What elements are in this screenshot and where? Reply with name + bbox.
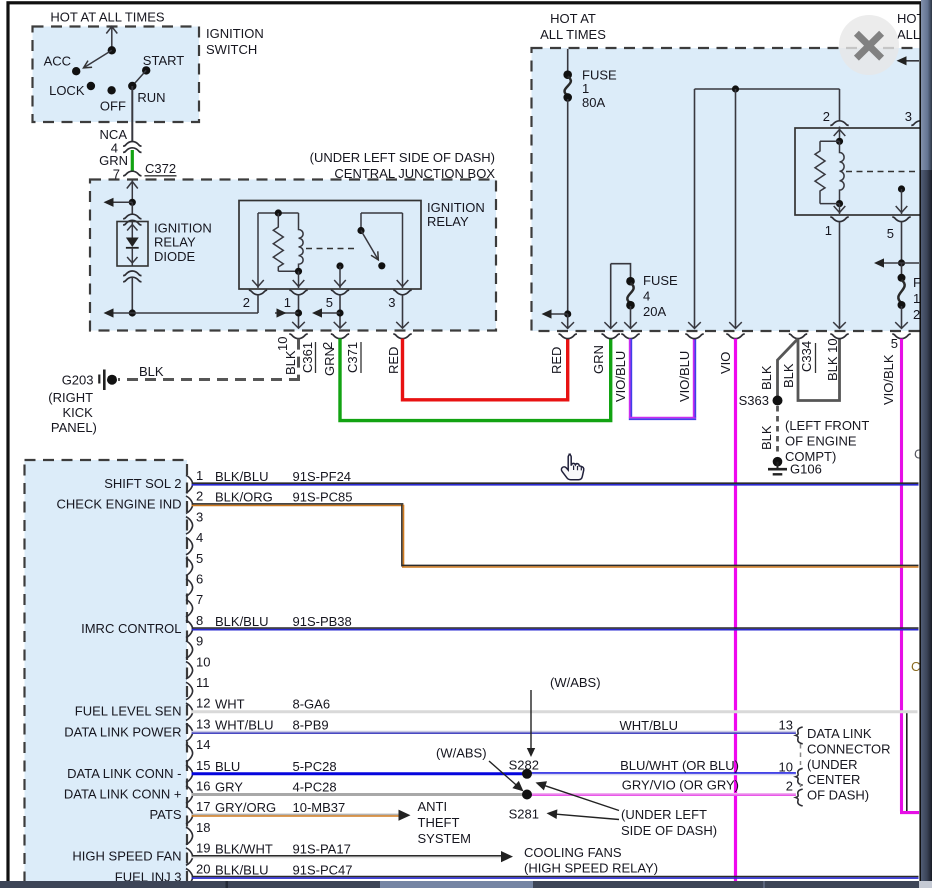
svg-text:IGNITION: IGNITION — [427, 200, 485, 215]
wire VIO vertical (magenta) — [734, 339, 737, 881]
svg-text:HIGH SPEED FAN: HIGH SPEED FAN — [72, 849, 181, 864]
svg-text:5: 5 — [196, 551, 203, 566]
svg-text:10: 10 — [275, 337, 290, 351]
svg-text:91S-PA17: 91S-PA17 — [293, 842, 351, 857]
wire 20 BLK/BLU 91S-PC47 — [192, 862, 919, 878]
svg-text:18: 18 — [196, 820, 210, 835]
relay pin 3 to CJB edge — [388, 290, 411, 328]
svg-text:1: 1 — [582, 81, 589, 96]
switch position dot OFF — [100, 86, 126, 113]
arrow stub top right — [897, 56, 920, 65]
svg-text:(W/ABS): (W/ABS) — [550, 675, 601, 690]
BLK pin cup (to S363 and C334) — [759, 334, 807, 390]
svg-text:RED: RED — [549, 347, 564, 374]
wire 15 BLU/WHT (OR BLU) to DLC pin 10 — [527, 772, 796, 774]
svg-text:10: 10 — [196, 654, 210, 669]
wire 16 GRY 4-PC28 — [192, 780, 527, 795]
svg-text:FUSE: FUSE — [643, 273, 678, 288]
svg-text:S281: S281 — [509, 807, 539, 822]
ignition relay diode D1 — [117, 221, 212, 267]
annotation UNDER LEFT SIDE OF DASH with arrows — [536, 781, 718, 838]
svg-text:OFF: OFF — [100, 99, 126, 114]
svg-text:1: 1 — [913, 291, 920, 306]
wire 1 BLK/BLU 91S-PF24 — [192, 469, 919, 485]
svg-text:80A: 80A — [582, 95, 605, 110]
svg-text:GRN: GRN — [322, 347, 337, 376]
VIO exit cup — [718, 334, 745, 374]
wire GRN pin 7 (green) — [99, 150, 132, 182]
wire BLK dashed to G203 — [118, 339, 300, 380]
svg-text:COMPT): COMPT) — [785, 449, 836, 464]
svg-text:14: 14 — [196, 737, 210, 752]
svg-text:17: 17 — [196, 799, 210, 814]
svg-text:ACC: ACC — [44, 54, 71, 69]
svg-text:KICK: KICK — [63, 405, 94, 420]
relay resistor (coil suppressor) — [273, 213, 283, 271]
svg-text:BLK: BLK — [759, 425, 774, 450]
svg-text:13: 13 — [779, 718, 793, 733]
ignition switch feed arrow to HOT — [106, 27, 117, 51]
svg-text:WHT/BLU: WHT/BLU — [215, 717, 274, 732]
svg-text:G203: G203 — [62, 372, 94, 387]
connector break NCA pin 4 — [100, 127, 142, 156]
svg-text:8-GA6: 8-GA6 — [293, 697, 331, 712]
ignition switch box (HOT AT ALL TIMES) — [33, 10, 264, 123]
wire 15 BLU 5-PC28 — [192, 759, 527, 774]
junction dot and stub arrow left — [104, 198, 136, 207]
svg-text:(UNDER LEFT: (UNDER LEFT — [621, 807, 707, 822]
wire BLK diagonal to S363 — [778, 339, 799, 398]
svg-text:8: 8 — [196, 613, 203, 628]
svg-text:OF ENGINE: OF ENGINE — [785, 434, 857, 449]
svg-text:5: 5 — [326, 295, 333, 310]
wire into CJB from C372 — [127, 181, 138, 203]
wire RED path (red) — [403, 339, 568, 400]
svg-text:10-MB37: 10-MB37 — [293, 800, 346, 815]
relay K2 pin 5 — [887, 217, 911, 263]
fuse F1 80A — [563, 49, 617, 314]
relay pin 1 — [284, 290, 308, 328]
svg-text:(UNDER: (UNDER — [807, 757, 858, 772]
fuse F4 20A feed — [604, 264, 630, 329]
wire to ignition relay diode — [131, 202, 133, 214]
svg-text:GRY/VIO (OR GRY): GRY/VIO (OR GRY) — [622, 778, 739, 793]
svg-text:IGNITION: IGNITION — [154, 221, 212, 236]
relay coil winding — [299, 213, 304, 271]
pin 1 junction dot with arrow stub — [275, 308, 302, 317]
svg-text:GRN: GRN — [591, 345, 606, 374]
annotation W/ABS lower with arrow to S281 — [436, 746, 524, 792]
fuse F4 20A — [624, 273, 678, 329]
ground bus junction dot and stub arrow left — [104, 308, 259, 317]
relay pin 3 wire — [397, 213, 409, 288]
svg-text:DATA LINK CONN -: DATA LINK CONN - — [67, 766, 181, 781]
svg-text:HOT AT: HOT AT — [550, 11, 596, 26]
svg-text:WHT: WHT — [215, 697, 245, 712]
relay coil bottom node — [278, 268, 304, 288]
ignition switch pivot dot — [108, 46, 116, 54]
C334 pin cup, wire BLK 10 — [825, 334, 849, 381]
connector C361 pin, wire BLK 10 — [275, 334, 316, 375]
svg-text:8-PB9: 8-PB9 — [293, 717, 329, 732]
svg-text:C361: C361 — [300, 342, 315, 373]
wire VIO/BLU loop (violet/blue) — [629, 339, 696, 420]
svg-text:19: 19 — [196, 841, 210, 856]
svg-text:RUN: RUN — [137, 90, 165, 105]
svg-text:91S-PB38: 91S-PB38 — [293, 614, 352, 629]
svg-text:20A: 20A — [643, 304, 666, 319]
svg-text:VIO/BLK: VIO/BLK — [881, 354, 896, 405]
svg-text:DATA LINK CONN +: DATA LINK CONN + — [64, 787, 182, 802]
annotation W/ABS upper with arrow to S282 — [527, 675, 601, 757]
wire VIO/BLK (magenta) to lower right — [900, 339, 919, 813]
wire 17 GRY/ORG 10-MB37 to anti-theft — [192, 800, 411, 821]
svg-text:FUEL LEVEL SEN: FUEL LEVEL SEN — [75, 704, 182, 719]
pin 5 junction dot with arrow to left — [874, 258, 919, 267]
svg-text:(HIGH SPEED RELAY): (HIGH SPEED RELAY) — [524, 861, 658, 876]
svg-text:BLK/BLU: BLK/BLU — [215, 862, 268, 877]
switch position dot LOCK — [49, 82, 95, 98]
PCM pin brackets and numbers — [186, 468, 211, 886]
svg-text:(RIGHT: (RIGHT — [48, 390, 93, 405]
wire BLK dashed to G106 — [759, 406, 778, 455]
svg-text:DATA LINK: DATA LINK — [807, 726, 872, 741]
svg-text:4: 4 — [196, 530, 203, 545]
svg-text:5: 5 — [887, 226, 894, 241]
svg-text:BLU: BLU — [215, 759, 240, 774]
horizontal scrollbar — [0, 881, 932, 888]
svg-text:SWITCH: SWITCH — [206, 42, 257, 57]
VIO/BLK pin 5 cup — [881, 334, 911, 405]
svg-text:GRY: GRY — [215, 780, 243, 795]
central junction box — [90, 150, 496, 331]
svg-text:BLK: BLK — [139, 364, 164, 379]
svg-text:ANTI: ANTI — [418, 799, 448, 814]
svg-text:GRY/ORG: GRY/ORG — [215, 800, 276, 815]
RED exit cup from HOT box — [549, 334, 577, 374]
svg-text:1: 1 — [196, 468, 203, 483]
svg-text:LOCK: LOCK — [49, 83, 85, 98]
VIO/BLU exit cup B — [677, 334, 704, 402]
data link connector label — [807, 726, 891, 803]
wire RED from CJB pin 3 — [386, 334, 412, 374]
relay K2 pin 3 — [905, 109, 930, 125]
ground G106 (LEFT FRONT OF ENGINE COMPT) — [768, 418, 869, 477]
svg-text:9: 9 — [196, 634, 203, 649]
svg-text:6: 6 — [196, 572, 203, 587]
svg-text:CONNECTOR: CONNECTOR — [807, 741, 891, 756]
svg-text:BLK: BLK — [759, 365, 774, 390]
svg-text:C372: C372 — [145, 161, 176, 176]
svg-text:1: 1 — [825, 223, 832, 238]
unknown component edge at right — [906, 712, 908, 811]
svg-text:VIO/BLU: VIO/BLU — [677, 351, 692, 402]
svg-text:BLU/WHT (OR BLU): BLU/WHT (OR BLU) — [620, 758, 739, 773]
svg-text:2: 2 — [823, 109, 830, 124]
svg-text:S363: S363 — [739, 393, 769, 408]
anti theft system label — [418, 799, 471, 846]
wire 13 WHT/BLU 8-PB9 to DLC pin 13 — [192, 717, 796, 733]
wire RUN to connector C372 — [131, 86, 133, 142]
connector C372 — [123, 161, 176, 176]
svg-text:SHIFT SOL 2: SHIFT SOL 2 — [104, 476, 181, 491]
svg-text:15: 15 — [196, 758, 210, 773]
svg-text:SYSTEM: SYSTEM — [418, 831, 471, 846]
svg-text:91S-PF24: 91S-PF24 — [293, 469, 352, 484]
splice S282 — [509, 758, 539, 779]
svg-text:IMRC CONTROL: IMRC CONTROL — [81, 621, 181, 636]
relay K2 pin 1 — [825, 204, 849, 329]
pin 5 junction dot with arrow stub — [312, 308, 344, 317]
wire diode to ground bus — [131, 277, 133, 313]
svg-text:C371: C371 — [345, 342, 360, 373]
fuse F1 output junction with stub arrow — [542, 309, 575, 328]
mouse cursor — [561, 454, 583, 479]
GRN exit cup — [591, 334, 620, 374]
svg-text:2: 2 — [196, 489, 203, 504]
svg-text:2: 2 — [786, 779, 793, 794]
svg-text:IGNITION: IGNITION — [206, 26, 264, 41]
bus bar to relay K2 — [688, 85, 839, 328]
svg-text:CHECK ENGINE IND: CHECK ENGINE IND — [57, 497, 182, 512]
relay K2 pin 2 — [823, 89, 849, 125]
relay pin 5 — [326, 290, 349, 328]
ignition switch blade to ACC — [84, 50, 112, 68]
svg-text:(LEFT FRONT: (LEFT FRONT — [785, 418, 869, 433]
svg-text:(UNDER LEFT SIDE OF DASH): (UNDER LEFT SIDE OF DASH) — [310, 150, 495, 165]
svg-text:BLK 10: BLK 10 — [825, 338, 840, 381]
svg-text:3: 3 — [905, 109, 912, 124]
wire 8 BLK/BLU 91S-PB38 — [192, 614, 919, 630]
svg-text:CENTRAL JUNCTION BOX: CENTRAL JUNCTION BOX — [334, 166, 495, 181]
svg-text:BLK/WHT: BLK/WHT — [215, 842, 273, 857]
svg-text:SIDE OF DASH): SIDE OF DASH) — [621, 823, 717, 838]
exit chevrons at CJB bottom edge — [292, 322, 409, 328]
switch position dot ACC — [44, 54, 81, 76]
cooling fans label — [524, 845, 658, 876]
svg-text:2: 2 — [243, 295, 250, 310]
PCM pin role labels — [57, 476, 182, 884]
ignition relay box — [239, 200, 485, 289]
splice S281 — [509, 790, 539, 822]
svg-text:PATS: PATS — [149, 807, 181, 822]
wire 16 GRY/VIO (OR GRY) to DLC pin 2 — [527, 793, 796, 795]
relay K2 contact pin 5 internal — [896, 185, 908, 214]
svg-text:4: 4 — [643, 289, 650, 304]
svg-text:ALL TIMES: ALL TIMES — [540, 27, 606, 42]
hot at all times box (right) — [532, 11, 932, 331]
svg-text:DATA LINK POWER: DATA LINK POWER — [64, 724, 181, 739]
connector break above diode — [123, 214, 141, 219]
switch position dot RUN and contact line — [128, 70, 165, 105]
connector C371 pin, wire GRN 2 — [320, 334, 361, 376]
relay switch pivot and blade — [357, 213, 402, 269]
svg-text:5-PC28: 5-PC28 — [293, 759, 337, 774]
svg-text:BLK/BLU: BLK/BLU — [215, 469, 268, 484]
svg-text:7: 7 — [196, 592, 203, 607]
svg-text:11: 11 — [196, 675, 210, 690]
svg-text:BLK/ORG: BLK/ORG — [215, 490, 273, 505]
svg-text:C: C — [911, 659, 920, 674]
PCM connector box — [25, 460, 188, 888]
svg-text:THEFT: THEFT — [418, 815, 460, 830]
relay coil top node — [252, 209, 298, 288]
svg-text:HOT AT ALL TIMES: HOT AT ALL TIMES — [50, 10, 164, 25]
svg-text:DIODE: DIODE — [154, 249, 196, 264]
svg-text:COOLING FANS: COOLING FANS — [524, 845, 622, 860]
svg-text:PANEL): PANEL) — [51, 420, 97, 435]
svg-text:10: 10 — [779, 760, 793, 775]
svg-text:5: 5 — [891, 336, 898, 351]
svg-text:WHT/BLU: WHT/BLU — [620, 718, 679, 733]
splice S363 — [739, 393, 783, 408]
fuse F19 (cut off at edge) — [895, 263, 932, 329]
svg-text:VIO/BLU: VIO/BLU — [613, 351, 628, 402]
svg-text:RED: RED — [386, 347, 401, 374]
svg-text:CENTER: CENTER — [807, 772, 860, 787]
svg-text:BLK: BLK — [781, 363, 796, 388]
svg-text:3: 3 — [388, 295, 395, 310]
switch position dot START — [142, 53, 184, 75]
svg-text:16: 16 — [196, 779, 210, 794]
relay armature dashed link — [306, 248, 357, 250]
relay pin 2 — [243, 290, 267, 313]
svg-text:2: 2 — [913, 307, 920, 322]
close button — [839, 15, 899, 75]
relay contact to pin 5 — [334, 262, 346, 288]
wire 12 WHT 8-GA6 — [192, 697, 918, 712]
relay K2 coil — [815, 127, 845, 208]
svg-text:1: 1 — [284, 295, 291, 310]
svg-text:START: START — [143, 53, 184, 68]
svg-text:BLK: BLK — [283, 350, 298, 375]
svg-text:12: 12 — [196, 696, 210, 711]
data link connector pins and braces — [779, 718, 803, 806]
ground G203 (RIGHT KICK PANEL) — [48, 364, 164, 435]
svg-text:20: 20 — [196, 861, 210, 876]
svg-text:91S-PC47: 91S-PC47 — [293, 862, 353, 877]
svg-text:(W/ABS): (W/ABS) — [436, 746, 487, 761]
wire 2 BLK/ORG 91S-PC85 — [192, 490, 919, 567]
svg-text:91S-PC85: 91S-PC85 — [293, 490, 353, 505]
relay K2 dashed armature link — [846, 171, 919, 173]
wire GRN from C371 to HOT box (green) — [340, 339, 611, 421]
wire BLK U-loop via C334 — [781, 339, 840, 401]
svg-text:C334: C334 — [799, 341, 814, 372]
svg-text:OF DASH): OF DASH) — [807, 788, 869, 803]
relay K2 box — [795, 128, 924, 215]
VIO/BLU exit cup A — [613, 334, 640, 402]
svg-text:4-PC28: 4-PC28 — [293, 780, 337, 795]
svg-text:BLK/BLU: BLK/BLU — [215, 614, 268, 629]
svg-text:7: 7 — [113, 167, 120, 182]
svg-text:VIO: VIO — [718, 352, 733, 374]
connector break below diode — [123, 271, 141, 276]
svg-text:RELAY: RELAY — [154, 235, 196, 250]
wire 19 BLK/WHT 91S-PA17 to cooling fans — [192, 842, 513, 863]
svg-text:13: 13 — [196, 716, 210, 731]
svg-text:3: 3 — [196, 509, 203, 524]
svg-text:RELAY: RELAY — [427, 214, 469, 229]
